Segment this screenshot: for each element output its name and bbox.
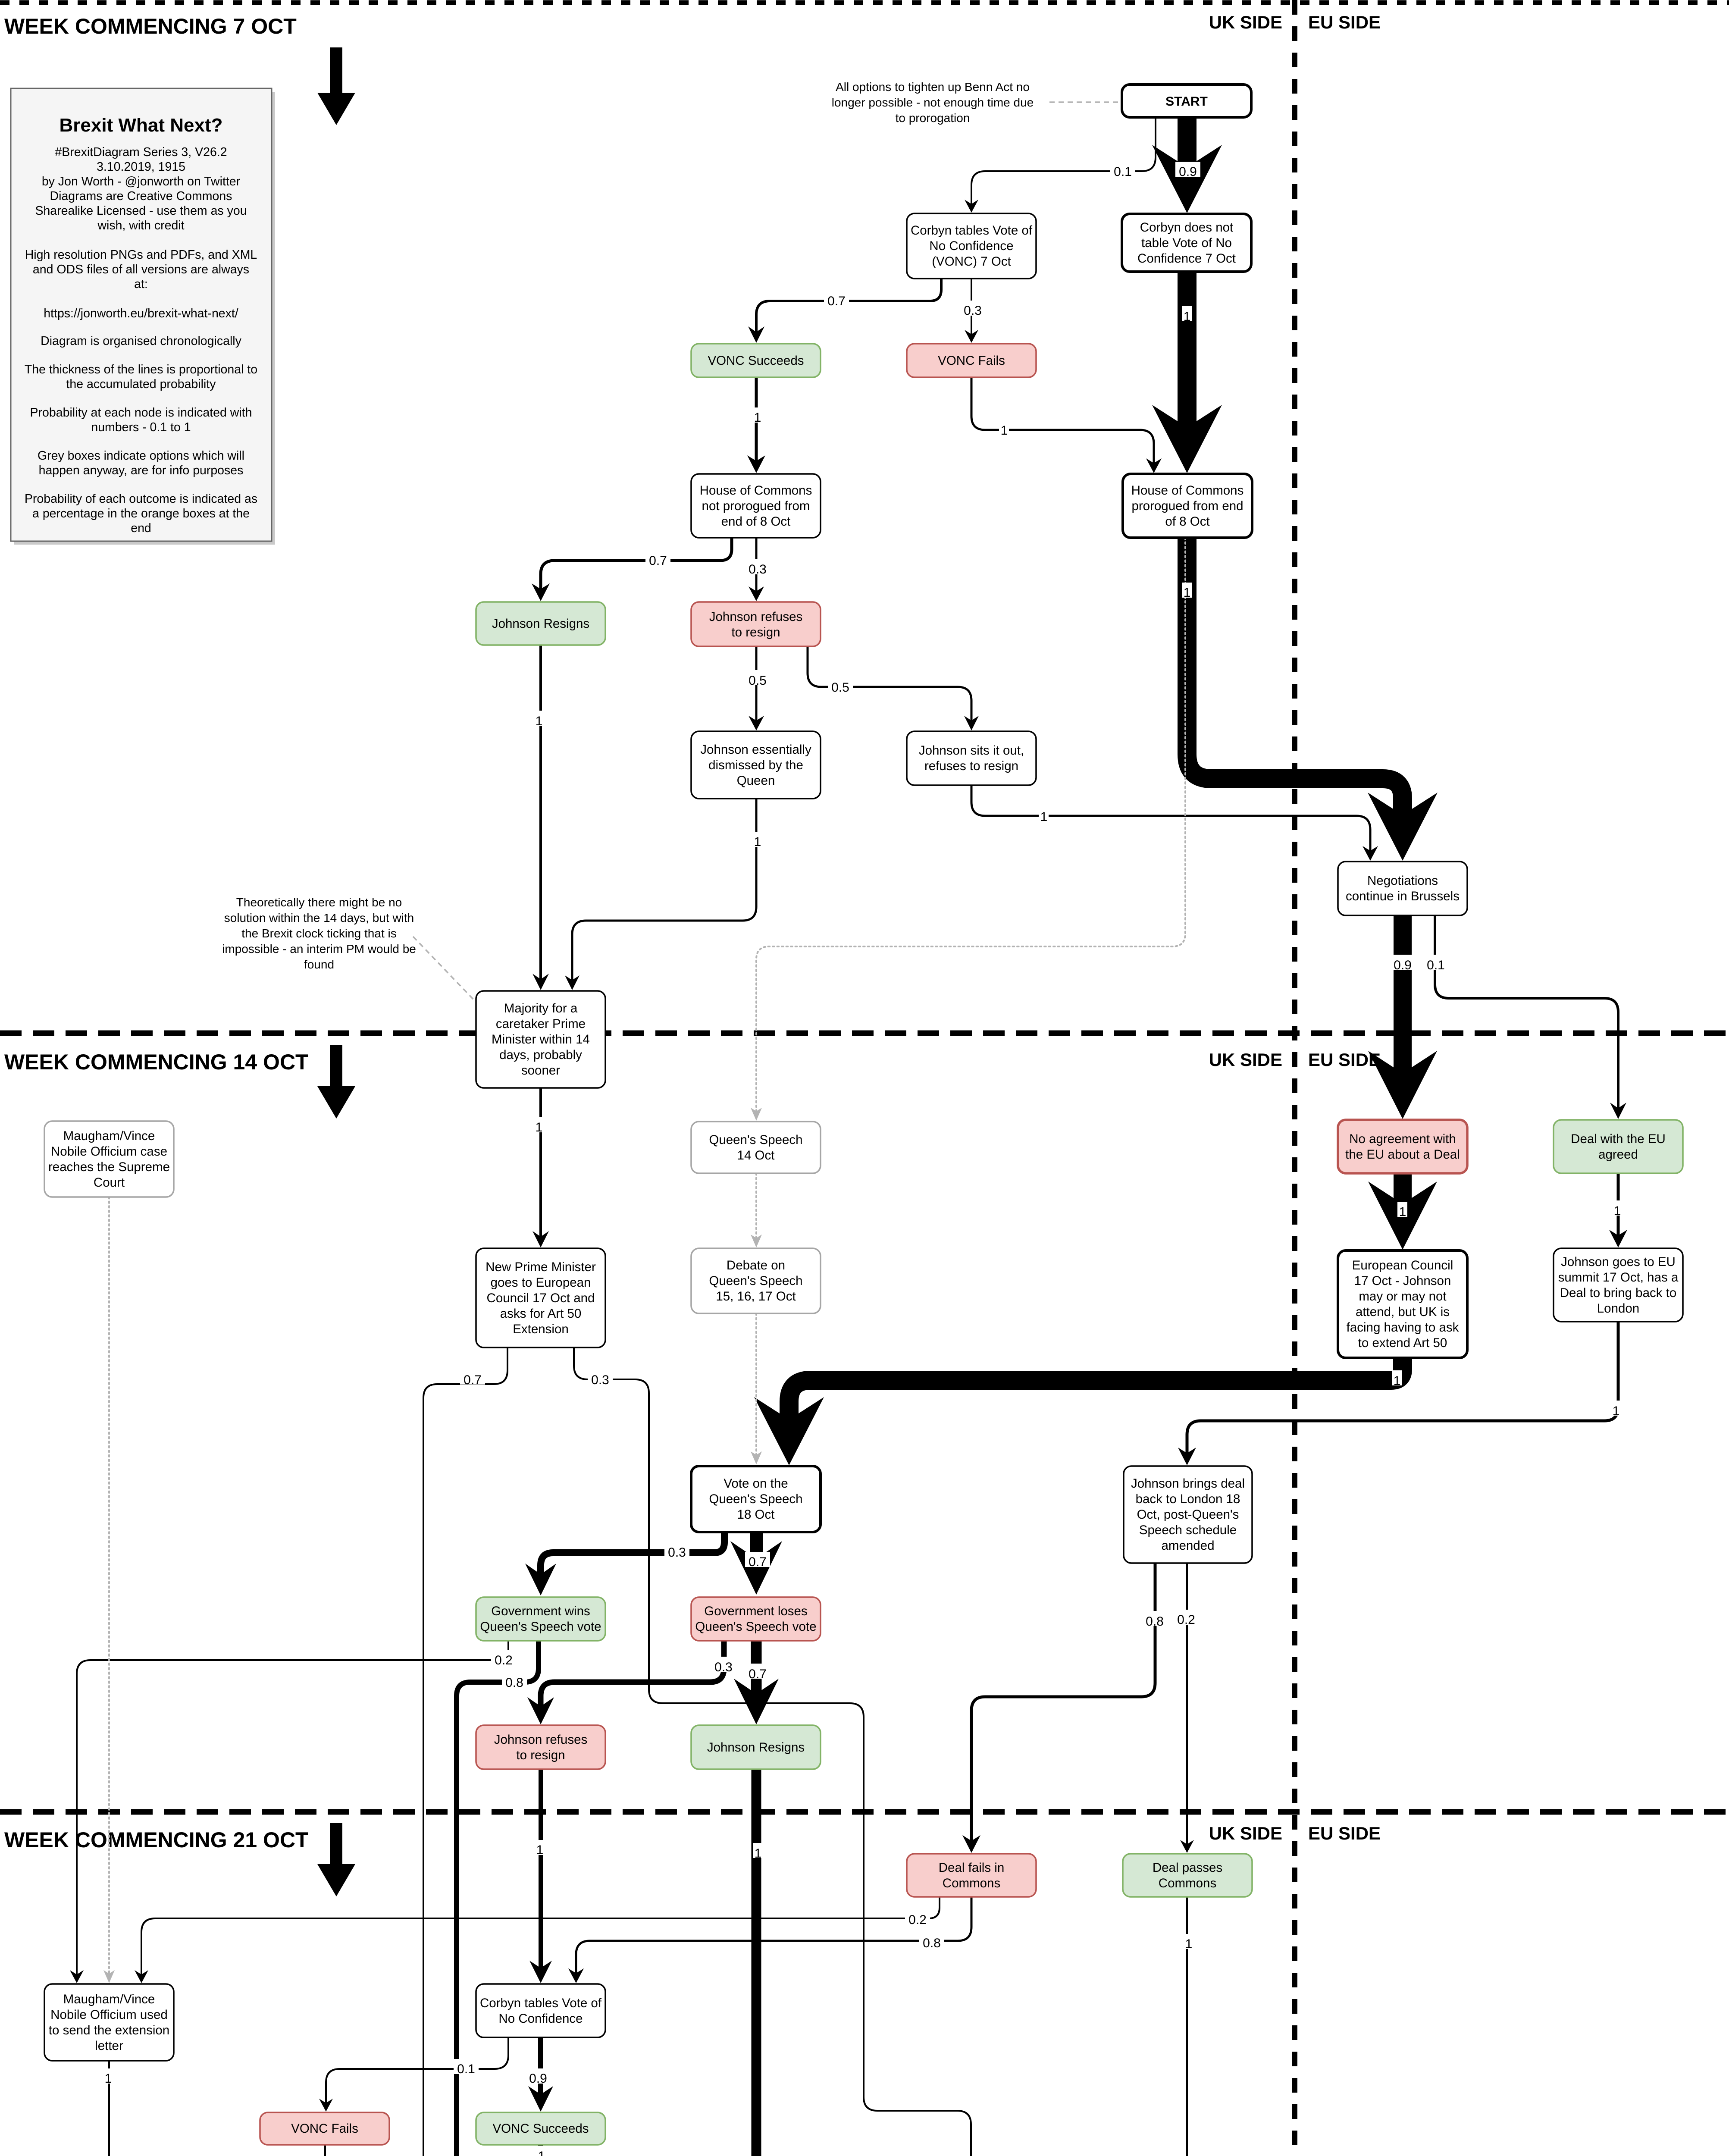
- svg-text:House of Commons: House of Commons: [700, 483, 812, 498]
- wire Vote QS to Government loses (0.7): [750, 1532, 763, 1562]
- wire START to Corbyn tables VONC (0.1): [971, 117, 1156, 207]
- header arrow: [317, 47, 355, 125]
- svg-text:Probability of each outcome is: Probability of each outcome is indicated…: [25, 492, 257, 506]
- node label p 1 hocpro: [1182, 583, 1192, 598]
- svg-text:0.7: 0.7: [649, 554, 667, 568]
- node label p 0.1 nego: [1423, 955, 1448, 970]
- wire Johnson refuses 2 to Corbyn tables 2 (1): [539, 1769, 543, 1971]
- wire VONC Succeeds to HoC not prorogued (1): [755, 377, 758, 464]
- node Johnson refuses to resign 2: [476, 1725, 605, 1769]
- svg-text:3.10.2019, 1915: 3.10.2019, 1915: [97, 160, 185, 174]
- wire Negotiations to Deal agreed (0.1): [1435, 915, 1618, 1112]
- svg-text:at:: at:: [134, 277, 148, 291]
- node label p 0.7 npm: [460, 1369, 485, 1385]
- svg-text:14 Oct: 14 Oct: [737, 1148, 775, 1163]
- node Corbyn tables VONC 2: [476, 1984, 605, 2037]
- node Majority for caretaker PM: [476, 991, 605, 1088]
- svg-text:Speech schedule: Speech schedule: [1139, 1523, 1237, 1537]
- svg-text:Maugham/Vince: Maugham/Vince: [63, 1992, 155, 2006]
- wire New PM to Caretaker PM PV first (0.3): [574, 1347, 971, 2156]
- node label p 1 ec: [1392, 1370, 1402, 1385]
- svg-text:asks for Art 50: asks for Art 50: [500, 1307, 582, 1321]
- svg-text:EU SIDE: EU SIDE: [1308, 12, 1381, 32]
- svg-text:by Jon Worth - @jonworth on Tw: by Jon Worth - @jonworth on Twitter: [42, 175, 241, 188]
- wire Johnson refuses to sits it out (0.5): [808, 646, 971, 724]
- node Johnson refuses to resign 1: [691, 602, 821, 646]
- svg-text:Vote on the: Vote on the: [724, 1476, 788, 1491]
- node label p 0.8 govwins: [502, 1672, 527, 1687]
- node New PM goes to European Council: [476, 1248, 605, 1347]
- wire START to Corbyn does not table (0.9): [1178, 117, 1197, 171]
- svg-text:WEEK COMMENCING 21 OCT: WEEK COMMENCING 21 OCT: [4, 1828, 309, 1852]
- svg-text:VONC Succeeds: VONC Succeeds: [493, 2122, 589, 2136]
- svg-text:solution within the 14 days, b: solution within the 14 days, but with: [224, 911, 414, 924]
- node label p 1 corbnot: [1182, 306, 1192, 321]
- svg-text:Johnson sits it out,: Johnson sits it out,: [919, 743, 1024, 758]
- svg-text:No Confidence: No Confidence: [498, 2012, 583, 2026]
- wire European Council to Vote on QS (1): [789, 1358, 1403, 1423]
- node Johnson Resigns 2: [691, 1725, 821, 1769]
- svg-text:0.5: 0.5: [749, 674, 767, 688]
- wire HoC prorogued to Queen's Speech (happens anyway) (grey): [756, 538, 1185, 1112]
- svg-text:0.2: 0.2: [908, 1913, 927, 1927]
- svg-text:Corbyn tables Vote of: Corbyn tables Vote of: [911, 223, 1033, 238]
- svg-text:START: START: [1165, 94, 1208, 109]
- node label p 1 dismissed: [752, 832, 762, 847]
- svg-text:0.2: 0.2: [1177, 1613, 1195, 1627]
- wire Gov wins to Maugham used (0.2): [77, 1641, 508, 1978]
- node label p 0.2 govwins: [491, 1650, 516, 1665]
- svg-text:0.9: 0.9: [529, 2071, 547, 2086]
- svg-text:dismissed by the: dismissed by the: [708, 758, 803, 772]
- svg-text:Queen's Speech: Queen's Speech: [709, 1274, 802, 1288]
- svg-text:0.7: 0.7: [749, 1667, 767, 1681]
- wire HoC not prorogued to Johnson Resigns (0.7): [541, 538, 732, 592]
- node label p 0.1 START: [1110, 162, 1135, 177]
- node label p 0.7 voteqs: [745, 1552, 770, 1567]
- svg-text:High resolution PNGs and PDFs,: High resolution PNGs and PDFs, and XML: [25, 248, 257, 262]
- wire Maugham used to Extension demanded (1): [109, 2061, 291, 2156]
- svg-text:Johnson refuses: Johnson refuses: [709, 610, 802, 624]
- svg-text:happen anyway, are for info pu: happen anyway, are for info purposes: [39, 464, 244, 477]
- node label p 1 voncF1: [999, 420, 1009, 435]
- svg-text:0.7: 0.7: [749, 1555, 767, 1569]
- svg-text:1: 1: [1184, 586, 1191, 600]
- svg-text:Government loses: Government loses: [704, 1604, 807, 1618]
- node Corbyn does not table VONC: [1122, 214, 1251, 272]
- wire HoC prorogued to Negotiations (1): [1187, 538, 1403, 818]
- node START: [1122, 85, 1251, 117]
- node Government wins QS vote: [476, 1597, 605, 1641]
- node label p 0.9 START: [1175, 162, 1200, 177]
- svg-text:Diagrams are Creative Commons: Diagrams are Creative Commons: [50, 189, 232, 203]
- node label p 0.7 hocnot: [645, 551, 670, 566]
- week separator line 2: [0, 1031, 1729, 1036]
- wire Supreme Court case to Maugham used (happens anyway) (grey): [108, 1197, 110, 1974]
- node label p 0.5 a: [745, 670, 770, 685]
- svg-text:0.5: 0.5: [831, 680, 849, 695]
- node Government loses QS vote: [691, 1597, 821, 1641]
- svg-text:0.7: 0.7: [827, 294, 846, 308]
- svg-text:1: 1: [538, 2149, 545, 2156]
- svg-text:reaches the Supreme: reaches the Supreme: [48, 1160, 170, 1174]
- svg-text:Deal with the EU: Deal with the EU: [1571, 1132, 1666, 1146]
- node Corbyn tables VONC 7 Oct: [907, 213, 1036, 279]
- svg-text:EU SIDE: EU SIDE: [1308, 1823, 1381, 1843]
- wire Corbyn tables 2 to VONC Succeeds 2 (0.9): [538, 2037, 543, 2098]
- svg-text:0.1: 0.1: [1114, 165, 1132, 179]
- svg-text:0.2: 0.2: [495, 1653, 513, 1667]
- node VONC Fails 1: [907, 344, 1036, 377]
- svg-text:Nobile Officium used: Nobile Officium used: [50, 2008, 168, 2022]
- wire New PM to Caretaker PM GE first (0.7): [423, 1347, 507, 2156]
- node label p 1 voncS1: [752, 407, 762, 423]
- node label p 0.7 govloses: [745, 1664, 770, 1679]
- svg-text:to prorogation: to prorogation: [896, 111, 970, 125]
- node label p 1 majority: [534, 1117, 544, 1132]
- node label p 1 voncs2: [536, 2146, 546, 2156]
- svg-text:UK SIDE: UK SIDE: [1209, 12, 1282, 32]
- wire Corbyn tables to VONC Fails (0.3): [971, 279, 972, 338]
- svg-text:to resign: to resign: [731, 625, 780, 639]
- svg-text:https://jonworth.eu/brexit-wha: https://jonworth.eu/brexit-what-next/: [44, 307, 238, 320]
- svg-text:Brexit What Next?: Brexit What Next?: [60, 115, 223, 136]
- svg-text:1: 1: [105, 2071, 112, 2086]
- node label p 0.2 brings: [1174, 1610, 1199, 1625]
- wire Johnson brings deal to Deal fails (0.8): [971, 1563, 1155, 1844]
- svg-text:0.7: 0.7: [464, 1373, 482, 1387]
- svg-text:1: 1: [1040, 810, 1048, 824]
- svg-text:No agreement with: No agreement with: [1349, 1132, 1456, 1146]
- svg-text:Diagram is organised chronolog: Diagram is organised chronologically: [41, 334, 241, 348]
- wire No agreement to European Council (1): [1394, 1173, 1412, 1207]
- svg-text:17 Oct - Johnson: 17 Oct - Johnson: [1354, 1274, 1451, 1288]
- svg-text:1: 1: [1185, 1937, 1193, 1951]
- svg-text:Johnson brings deal: Johnson brings deal: [1131, 1476, 1245, 1491]
- wire Majority caretaker to New PM (1): [539, 1088, 542, 1240]
- svg-text:Johnson Resigns: Johnson Resigns: [707, 1740, 805, 1755]
- node Vote on Queen's Speech: [691, 1466, 821, 1532]
- svg-text:Deal fails in: Deal fails in: [939, 1861, 1004, 1875]
- node label p 0.3 npm: [588, 1369, 613, 1385]
- node Supreme Court case: [44, 1121, 174, 1197]
- svg-text:1: 1: [755, 1846, 762, 1861]
- svg-text:letter: letter: [95, 2039, 123, 2053]
- svg-text:Maugham/Vince: Maugham/Vince: [63, 1129, 155, 1143]
- svg-text:#BrexitDiagram Series 3, V26.2: #BrexitDiagram Series 3, V26.2: [55, 145, 227, 159]
- svg-text:refuses to resign: refuses to resign: [924, 759, 1018, 773]
- svg-text:VONC Fails: VONC Fails: [291, 2122, 358, 2136]
- svg-text:WEEK COMMENCING 7 OCT: WEEK COMMENCING 7 OCT: [4, 14, 297, 38]
- wire Corbyn tables 2 to VONC Fails 2 (0.1): [326, 2037, 508, 2106]
- wire Deal fails to Maugham used (0.2): [141, 1897, 940, 1978]
- connector Benn Act note to START: [1049, 101, 1120, 103]
- svg-text:Johnson goes to EU: Johnson goes to EU: [1561, 1255, 1676, 1269]
- svg-text:The thickness of the lines is: The thickness of the lines is proportion…: [25, 363, 257, 376]
- svg-text:Corbyn tables Vote of: Corbyn tables Vote of: [480, 1996, 602, 2010]
- svg-text:end: end: [131, 521, 151, 535]
- svg-text:Deal to bring back to: Deal to bring back to: [1560, 1286, 1677, 1300]
- wire Corbyn tables to VONC Succeeds (0.7): [756, 279, 941, 335]
- svg-text:All options to tighten up Benn: All options to tighten up Benn Act no: [836, 80, 1030, 94]
- svg-text:No Confidence: No Confidence: [929, 239, 1013, 253]
- node label p 1 summit: [1611, 1401, 1621, 1416]
- svg-text:0.8: 0.8: [923, 1936, 941, 1950]
- wire Gov loses to Johnson Resigns 2 (0.7): [751, 1641, 762, 1697]
- svg-text:Extension: Extension: [513, 1322, 569, 1336]
- svg-text:days, probably: days, probably: [499, 1048, 582, 1062]
- svg-text:may or may not: may or may not: [1359, 1289, 1446, 1304]
- svg-text:sooner: sooner: [521, 1063, 560, 1078]
- svg-text:Queen's Speech: Queen's Speech: [709, 1133, 802, 1147]
- node label p 1 jresigns2: [753, 1843, 763, 1858]
- node Queen's Speech 14 Oct: [691, 1122, 821, 1173]
- node label p 1 sits: [1039, 807, 1049, 822]
- svg-text:Corbyn does not: Corbyn does not: [1140, 220, 1233, 235]
- node VONC Succeeds 2: [476, 2112, 605, 2145]
- node label p 1 jr1: [534, 711, 544, 726]
- svg-text:VONC Fails: VONC Fails: [938, 354, 1005, 368]
- node label p 0.7 tables: [824, 291, 849, 306]
- node Maugham used to send letter: [44, 1984, 174, 2061]
- svg-text:Queen's Speech: Queen's Speech: [709, 1492, 802, 1506]
- svg-text:to extend Art 50: to extend Art 50: [1358, 1336, 1447, 1350]
- node Deal with the EU agreed: [1554, 1120, 1683, 1173]
- wire Corbyn does not table to HoC prorogued (1): [1178, 272, 1197, 431]
- wire Deal fails to Corbyn tables 2 (0.8): [576, 1897, 971, 1977]
- wire Deal agreed to EU summit (1): [1617, 1173, 1620, 1239]
- node Deal passes Commons: [1123, 1854, 1252, 1897]
- node Debate on Queen's Speech: [691, 1248, 821, 1313]
- header arrow: [317, 1823, 355, 1896]
- svg-text:UK SIDE: UK SIDE: [1209, 1050, 1282, 1070]
- svg-text:Negotiations: Negotiations: [1367, 874, 1438, 888]
- wire Gov wins to Johnson survives (0.8): [359, 1641, 539, 2156]
- svg-text:Confidence 7 Oct: Confidence 7 Oct: [1137, 251, 1236, 266]
- svg-text:attend, but UK is: attend, but UK is: [1356, 1305, 1450, 1319]
- svg-text:1: 1: [1613, 1404, 1620, 1418]
- wire VONC Fails to HoC prorogued (1): [971, 377, 1154, 467]
- svg-text:Queen's Speech vote: Queen's Speech vote: [695, 1620, 816, 1634]
- svg-text:Sharealike Licensed - use them: Sharealike Licensed - use them as you: [35, 204, 247, 218]
- svg-text:1: 1: [754, 835, 761, 849]
- title info box: [14, 92, 275, 545]
- svg-text:1: 1: [1184, 310, 1191, 324]
- svg-text:Queen: Queen: [737, 774, 775, 788]
- week separator line 3: [0, 1809, 1729, 1815]
- svg-text:Johnson Resigns: Johnson Resigns: [492, 617, 589, 631]
- svg-text:summit 17 Oct, has a: summit 17 Oct, has a: [1558, 1270, 1679, 1285]
- svg-text:1: 1: [536, 1120, 543, 1134]
- svg-text:0.8: 0.8: [505, 1676, 523, 1690]
- node label p 0.2 dealfails: [905, 1909, 930, 1924]
- node European Council 17 Oct: [1338, 1250, 1467, 1358]
- node Deal fails in Commons: [907, 1854, 1036, 1897]
- node Johnson brings deal back: [1124, 1466, 1252, 1563]
- node HoC not prorogued: [691, 474, 821, 538]
- svg-text:the Brexit clock ticking that: the Brexit clock ticking that is: [241, 927, 396, 940]
- wire Johnson refuses to dismissed by Queen (0.5): [755, 646, 758, 724]
- svg-text:found: found: [304, 958, 334, 971]
- svg-text:0.1: 0.1: [457, 2062, 475, 2076]
- svg-text:numbers - 0.1 to 1: numbers - 0.1 to 1: [91, 420, 191, 434]
- svg-text:0.3: 0.3: [714, 1660, 733, 1674]
- header arrow: [317, 1045, 355, 1119]
- svg-text:New Prime Minister: New Prime Minister: [485, 1260, 596, 1274]
- svg-text:Minister within 14: Minister within 14: [492, 1032, 590, 1047]
- svg-text:0.3: 0.3: [749, 562, 767, 577]
- svg-text:and ODS files of all versions: and ODS files of all versions are always: [33, 263, 249, 276]
- node label p 1 jrefuses2: [535, 1840, 545, 1855]
- svg-text:Government wins: Government wins: [491, 1604, 590, 1618]
- svg-text:House of Commons: House of Commons: [1131, 483, 1244, 498]
- wire Debate to Vote on QS (happens anyway) (grey): [755, 1313, 757, 1456]
- svg-text:18 Oct: 18 Oct: [737, 1507, 775, 1522]
- node label p 1 maugham: [103, 2068, 113, 2084]
- node label p 1 dealpasses: [1184, 1934, 1193, 1949]
- svg-text:longer possible - not enough t: longer possible - not enough time due: [832, 96, 1034, 109]
- node label p 0.1 corbtables2: [454, 2059, 479, 2074]
- svg-text:Commons: Commons: [943, 1876, 1000, 1890]
- svg-text:VONC Succeeds: VONC Succeeds: [708, 354, 804, 368]
- node label p 0.5 b: [828, 677, 853, 692]
- svg-text:Johnson refuses: Johnson refuses: [494, 1733, 587, 1747]
- svg-text:1: 1: [536, 714, 543, 728]
- wire dismissed by Queen to Majority caretaker (1): [572, 799, 756, 984]
- svg-text:Grey boxes indicate options wh: Grey boxes indicate options which will: [38, 449, 244, 463]
- svg-text:facing having to ask: facing having to ask: [1347, 1320, 1459, 1335]
- svg-text:0.8: 0.8: [1146, 1614, 1164, 1629]
- wire EU summit to Johnson brings deal (1): [1187, 1322, 1618, 1457]
- svg-text:1: 1: [754, 411, 761, 425]
- week separator line 1: [0, 0, 1729, 5]
- wire Queen's Speech to Debate (happens anyway) (grey): [755, 1173, 757, 1239]
- svg-text:Deal passes: Deal passes: [1153, 1861, 1222, 1875]
- svg-text:Nobile Officium case: Nobile Officium case: [51, 1144, 167, 1159]
- wire sits it out to Negotiations (1): [971, 785, 1370, 854]
- node label p 0.3 tables: [960, 301, 985, 316]
- svg-text:Majority for a: Majority for a: [504, 1001, 578, 1015]
- svg-text:not prorogued from: not prorogued from: [702, 499, 810, 513]
- svg-text:the accumulated probability: the accumulated probability: [66, 377, 216, 391]
- node label p 0.9 nego: [1390, 955, 1415, 970]
- svg-text:agreed: agreed: [1598, 1147, 1638, 1162]
- svg-text:wish, with credit: wish, with credit: [97, 219, 184, 232]
- svg-text:Probability at each node is in: Probability at each node is indicated wi…: [30, 406, 252, 420]
- wire Vote QS to Government wins (0.3): [541, 1532, 724, 1578]
- svg-text:(VONC) 7 Oct: (VONC) 7 Oct: [932, 254, 1011, 269]
- svg-text:1: 1: [1399, 1205, 1406, 1219]
- svg-text:Johnson essentially: Johnson essentially: [700, 743, 811, 757]
- svg-text:0.3: 0.3: [668, 1545, 686, 1560]
- svg-text:to resign: to resign: [516, 1748, 565, 1762]
- svg-text:0.1: 0.1: [1427, 958, 1445, 972]
- svg-text:impossible - an interim PM wou: impossible - an interim PM would be: [222, 942, 416, 956]
- svg-text:caretaker Prime: caretaker Prime: [496, 1017, 586, 1031]
- svg-text:end of 8 Oct: end of 8 Oct: [721, 514, 791, 529]
- node label p 0.8 brings: [1142, 1611, 1167, 1626]
- UK/EU separator (vertical dashed): [1292, 0, 1297, 2156]
- svg-text:0.9: 0.9: [1179, 165, 1197, 179]
- svg-text:1: 1: [1394, 1374, 1401, 1388]
- svg-text:Council 17 Oct and: Council 17 Oct and: [487, 1291, 595, 1305]
- wire Deal passes to Brexit with a Deal (1): [1186, 1897, 1188, 2156]
- wire Negotiations to No agreement (0.9): [1394, 915, 1412, 1077]
- svg-text:UK SIDE: UK SIDE: [1209, 1823, 1282, 1843]
- wire VONC Succeeds 2 to Caretaker admin (1): [538, 2145, 543, 2156]
- node label p 0.9 corbtables2: [526, 2068, 551, 2084]
- svg-text:Oct, post-Queen's: Oct, post-Queen's: [1137, 1507, 1239, 1522]
- svg-text:Commons: Commons: [1159, 1876, 1216, 1890]
- svg-text:Court: Court: [94, 1175, 125, 1190]
- svg-text:continue in Brussels: continue in Brussels: [1346, 889, 1460, 903]
- svg-text:prorogued from end: prorogued from end: [1131, 499, 1243, 513]
- node VONC Succeeds 1: [691, 344, 821, 377]
- node Johnson sits it out: [907, 731, 1036, 785]
- svg-text:goes to European: goes to European: [491, 1275, 591, 1290]
- node label p 1 noagree: [1397, 1202, 1407, 1217]
- wire Johnson brings deal to Deal passes (0.2): [1186, 1563, 1188, 1848]
- node Johnson goes to EU summit: [1554, 1248, 1683, 1322]
- svg-text:1: 1: [1001, 423, 1008, 438]
- wire HoC not prorogued to Johnson refuses (0.3): [755, 538, 758, 595]
- svg-text:back to London 18: back to London 18: [1136, 1492, 1240, 1506]
- node Johnson Resigns 1: [476, 602, 605, 645]
- svg-text:Debate on: Debate on: [727, 1258, 785, 1272]
- svg-text:WEEK COMMENCING 14 OCT: WEEK COMMENCING 14 OCT: [4, 1050, 309, 1074]
- svg-text:table Vote of No: table Vote of No: [1141, 236, 1232, 250]
- svg-text:0.3: 0.3: [591, 1373, 609, 1387]
- svg-text:to send the extension: to send the extension: [49, 2023, 169, 2037]
- node label p 0.8 dealfails: [919, 1933, 944, 1948]
- wire Johnson Resigns 2 to Caretaker admin (1): [586, 1769, 756, 2156]
- svg-text:a percentage in the orange box: a percentage in the orange boxes at the: [32, 507, 250, 520]
- node label p 0.3 hocnot: [745, 559, 770, 574]
- node Negotiations in Brussels: [1338, 862, 1467, 915]
- svg-text:of 8 Oct: of 8 Oct: [1165, 514, 1209, 529]
- svg-text:London: London: [1597, 1301, 1639, 1316]
- connector Theoretically note to Majority box: [413, 937, 475, 1001]
- node label p 0.3 govloses: [711, 1657, 736, 1672]
- wire Johnson Resigns to Majority caretaker (1): [539, 645, 542, 983]
- wire VONC Fails 2 to Johnson survives (1): [324, 2145, 326, 2156]
- svg-text:1: 1: [1614, 1204, 1621, 1218]
- node label p 1 agreed: [1612, 1200, 1622, 1216]
- node No agreement with EU: [1338, 1120, 1467, 1173]
- svg-text:0.9: 0.9: [1394, 958, 1412, 972]
- svg-text:15, 16, 17 Oct: 15, 16, 17 Oct: [716, 1289, 796, 1304]
- node Johnson dismissed by Queen: [691, 731, 821, 799]
- svg-text:the EU about a Deal: the EU about a Deal: [1345, 1147, 1460, 1162]
- svg-text:0.3: 0.3: [964, 304, 982, 318]
- node label p 0.3 voteqs: [664, 1542, 689, 1557]
- node VONC Fails 2: [260, 2112, 389, 2145]
- wire Gov loses to Johnson refuses 2 (0.3): [541, 1641, 724, 1710]
- svg-text:Theoretically there might be n: Theoretically there might be no: [236, 896, 402, 909]
- svg-text:Queen's Speech vote: Queen's Speech vote: [480, 1620, 601, 1634]
- node HoC prorogued: [1123, 474, 1252, 538]
- svg-text:1: 1: [536, 1843, 544, 1857]
- svg-text:European Council: European Council: [1352, 1258, 1453, 1272]
- svg-text:amended: amended: [1161, 1539, 1214, 1553]
